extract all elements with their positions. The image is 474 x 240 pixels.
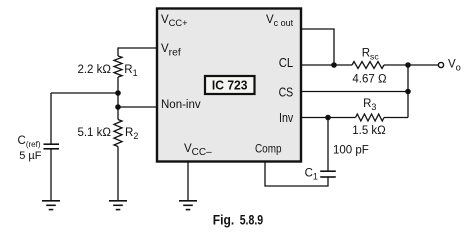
wire node B to Non-inv pin	[118, 106, 157, 108]
wire node A to Cref column	[51, 92, 118, 94]
wire Rsc to Vo terminal	[384, 64, 439, 66]
wire Cref column down	[50, 93, 52, 144]
svg-text:C1: C1	[305, 167, 318, 181]
resistor Rsc	[352, 62, 384, 69]
svg-text:Vo: Vo	[448, 58, 461, 72]
wire Inv pin to R3	[301, 117, 356, 119]
wire vertical Vo node to R3 right	[407, 65, 409, 118]
node Vo junction dot	[405, 62, 411, 68]
inner label box IC 723	[205, 76, 255, 94]
svg-text:Comp: Comp	[255, 141, 282, 155]
svg-text:5.1 kΩ: 5.1 kΩ	[77, 127, 111, 139]
ground under VCC-	[179, 201, 197, 210]
wire Vref pin to R1 top	[118, 48, 157, 56]
svg-text:R3: R3	[363, 98, 376, 112]
wire CS pin to node	[301, 91, 408, 93]
svg-text:C(ref): C(ref)	[18, 135, 41, 149]
resistor R1	[114, 56, 122, 77]
wire node B to R2 top	[117, 107, 119, 120]
svg-text:1.5 kΩ: 1.5 kΩ	[352, 125, 386, 137]
svg-text:CL: CL	[279, 56, 294, 70]
wire R1 bottom to node A	[117, 77, 119, 93]
node A junction dot	[115, 90, 121, 96]
IC 723 main box	[157, 9, 301, 162]
svg-text:R1: R1	[124, 64, 137, 78]
wire R2 bottom to ground	[117, 147, 119, 201]
svg-text:5 µF: 5 µF	[19, 150, 42, 162]
junction dot Inv / C1	[325, 115, 331, 121]
wire Inv node down to C1	[327, 118, 329, 172]
svg-text:R2: R2	[125, 127, 138, 141]
svg-text:2.2 kΩ: 2.2 kΩ	[77, 64, 111, 76]
svg-text:5.8.9: 5.8.9	[240, 212, 263, 227]
capacitor Cref	[44, 144, 60, 149]
Vo open terminal	[438, 62, 443, 67]
junction dot CS	[405, 89, 411, 95]
svg-text:4.67 Ω: 4.67 Ω	[352, 74, 387, 86]
resistor R2	[114, 120, 122, 147]
wire R3 right to vertical	[384, 117, 408, 119]
resistor R3	[356, 114, 385, 121]
svg-text:Fig.: Fig.	[213, 212, 234, 227]
ground under R2	[109, 201, 127, 210]
svg-text:CS: CS	[279, 86, 294, 100]
wire C1 to Comp pin	[265, 161, 328, 186]
node B junction dot	[115, 104, 121, 110]
svg-text:Inv: Inv	[279, 111, 294, 125]
svg-text:100 pF: 100 pF	[333, 144, 369, 156]
ground under Cref	[42, 201, 60, 210]
wire VCC- pin to ground	[187, 161, 189, 200]
svg-text:Rsc: Rsc	[362, 48, 380, 62]
svg-text:Non-inv: Non-inv	[161, 99, 201, 111]
junction dot Vc out / CL	[331, 62, 337, 68]
wire CL pin to Rsc	[301, 64, 352, 66]
wire Vc out to CL node	[301, 29, 334, 65]
capacitor C1	[320, 171, 336, 177]
svg-text:IC 723: IC 723	[212, 79, 248, 93]
wire node A to node B	[117, 93, 119, 107]
wire Cref to ground	[50, 149, 52, 200]
